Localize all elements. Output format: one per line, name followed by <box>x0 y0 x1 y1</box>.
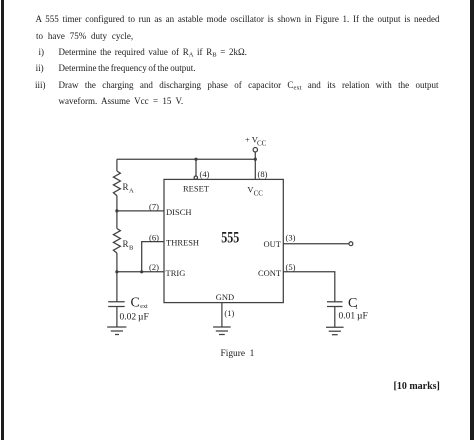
capacitor Cext <box>108 301 125 303</box>
ground under C1 <box>326 326 344 328</box>
junction disch <box>115 209 118 212</box>
IC U1: 555 timer outline <box>164 179 283 302</box>
wire top rail <box>117 158 255 160</box>
reset bubble pin 4 <box>194 176 197 179</box>
svg-text:(1): (1) <box>224 308 234 318</box>
wire Vcc drop to pin 8 <box>254 152 256 179</box>
svg-text:THRESH: THRESH <box>166 238 199 248</box>
wire rail RA to RB <box>116 196 118 229</box>
ground under pin 1 <box>213 326 231 328</box>
node +VCC supply label <box>245 135 267 148</box>
right page edge bar <box>470 0 474 440</box>
junction trig left <box>115 270 118 273</box>
figure caption <box>221 349 255 359</box>
ground under Cext <box>107 326 126 328</box>
+Vcc terminal circle <box>253 148 257 152</box>
svg-text:DISCH: DISCH <box>166 207 192 217</box>
svg-text:CC: CC <box>257 140 267 148</box>
svg-text:(6): (6) <box>149 233 159 243</box>
svg-text:(8): (8) <box>258 169 268 179</box>
svg-text:(2): (2) <box>149 262 159 272</box>
svg-text:CC: CC <box>254 190 264 198</box>
IC U1 pin-name labels and part number 555 <box>166 183 282 302</box>
svg-text:ext: ext <box>140 304 148 310</box>
svg-text:R: R <box>123 182 129 192</box>
svg-text:(5): (5) <box>286 262 296 272</box>
wire Cext to ground <box>116 307 118 328</box>
junction thresh/trig tie <box>140 270 143 273</box>
wire trig <box>117 271 164 273</box>
svg-text:CONT: CONT <box>258 268 282 278</box>
junction reset drop <box>194 158 197 161</box>
marks <box>394 381 440 392</box>
svg-text:GND: GND <box>216 292 234 302</box>
left page edge bar <box>1 0 4 440</box>
wire cont <box>283 272 335 302</box>
svg-text:(3): (3) <box>286 233 296 243</box>
wire thresh stub <box>142 242 164 272</box>
svg-text:0.01 µF: 0.01 µF <box>339 312 368 322</box>
svg-text:(4): (4) <box>200 169 210 179</box>
svg-text:OUT: OUT <box>264 239 282 249</box>
svg-text:TRIG: TRIG <box>166 268 186 278</box>
wire gnd pin 1 <box>221 303 223 327</box>
capacitor C1 <box>327 301 343 303</box>
wire C1 to ground <box>334 307 336 328</box>
svg-text:C: C <box>131 296 140 311</box>
wire out <box>283 243 349 245</box>
question text <box>36 14 440 24</box>
svg-text:1: 1 <box>355 305 358 311</box>
svg-text:RESET: RESET <box>183 183 210 193</box>
resistor RA <box>113 171 120 196</box>
out terminal circle <box>349 242 353 246</box>
svg-text:B: B <box>129 245 134 252</box>
resistor RB <box>113 229 120 254</box>
wire left rail top segment <box>116 159 118 171</box>
svg-text:555: 555 <box>221 230 239 247</box>
wire reset drop <box>195 159 197 176</box>
label C1 0.01 uF <box>339 296 368 322</box>
svg-text:0.02 µF: 0.02 µF <box>120 313 149 323</box>
svg-text:(7): (7) <box>149 202 159 212</box>
label Cext 0.02 uF <box>120 296 149 323</box>
svg-text:A: A <box>129 188 134 195</box>
wire disch <box>117 210 164 212</box>
wire rail RB to trig <box>116 253 118 302</box>
svg-text:R: R <box>123 239 129 249</box>
junction Vcc/top rail <box>254 158 257 161</box>
